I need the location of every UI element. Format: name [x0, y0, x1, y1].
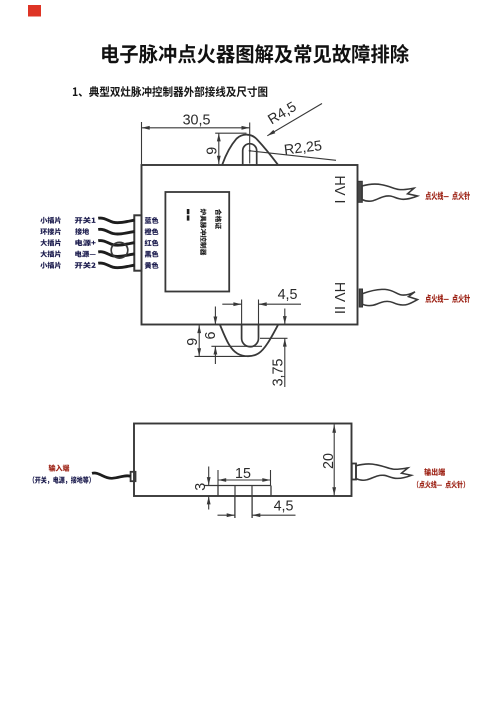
screw boss below body: [234, 496, 236, 518]
dimension 20 line and arrows: [333, 425, 335, 496]
dimension 9 line and arrows: [218, 133, 220, 164]
radius callout R4,5 leader: [267, 104, 322, 136]
label 输出端: [424, 468, 445, 476]
dimension 3 lower segment: [208, 496, 210, 509]
wire color label 黄色: [145, 262, 159, 269]
pin label 小插片: [40, 217, 61, 224]
wire loop ring: [111, 242, 128, 258]
svg-text:6: 6: [203, 331, 219, 339]
output terminal lug: [352, 464, 356, 480]
pin label 环接片: [40, 228, 61, 235]
mounting ear outer profile: [222, 135, 277, 165]
pin label 电源—: [75, 251, 95, 258]
svg-text:9: 9: [205, 147, 221, 155]
label (点火线— 点火针): [417, 481, 465, 489]
svg-text:20: 20: [321, 453, 337, 469]
ear vertical centerline: [249, 123, 251, 164]
HV II terminal lug: [359, 289, 362, 307]
dimension 9 reference line: [215, 132, 246, 134]
output wire banner: [356, 464, 412, 480]
label plate rectangle: [165, 192, 229, 292]
controller body outline: [142, 165, 358, 325]
slot extension line right: [258, 300, 260, 325]
HV I terminal lug: [358, 181, 363, 202]
mounting pad left side: [217, 486, 219, 497]
plate dashes —— (rotated): [187, 209, 190, 214]
label 输入端: [49, 464, 70, 471]
label (开关, 电源, 接地等): [33, 476, 91, 484]
screw hole sides inside pad: [234, 486, 236, 497]
mounting pad top line: [205, 485, 272, 487]
pin label 接地: [75, 228, 89, 235]
plate text 合格证 (rotated): [215, 209, 222, 229]
wire color label 橙色: [145, 228, 159, 235]
dimension 9 (notch depth): [198, 325, 200, 357]
svg-text:3,75: 3,75: [270, 359, 286, 387]
wire color label 红色: [145, 240, 159, 247]
input connector lug: [131, 472, 136, 481]
pin label 开关2: [75, 262, 96, 269]
dimension 4,5 line segments (boss): [218, 514, 235, 516]
reference line slot full depth: [211, 345, 262, 347]
title 电子脉冲点火器图解及常见故障排除: [102, 44, 409, 64]
red page marker box: [28, 5, 41, 17]
dimension 30,5 line and arrows: [142, 127, 250, 129]
svg-text:4,5: 4,5: [274, 499, 294, 515]
HV II output wire banner: [363, 289, 418, 305]
dimension 30,5 extension line: [141, 122, 143, 164]
HV I output wire banner: [362, 184, 418, 201]
bottom notch slot (through hole): [242, 325, 259, 347]
pin label 电源+: [75, 239, 95, 246]
slot extension line left: [241, 300, 243, 325]
label 点火线— 点火针 (HV I): [425, 192, 470, 201]
wire color label 黑色: [145, 251, 159, 258]
radius callout R2,25 leader: [250, 151, 336, 161]
wire 电源— (黑色): [98, 252, 134, 257]
dimension 6 (slot depth): [214, 307, 216, 325]
dimension 3 upper segment: [208, 467, 210, 486]
wire 电源+ (红色): [98, 241, 134, 246]
dimension 3,75 lower segment: [284, 338, 286, 387]
reference line slot straight depth: [260, 337, 288, 339]
svg-text:4,5: 4,5: [278, 287, 298, 303]
dimension 15 extension ticks: [217, 470, 219, 485]
pin label 小插片: [40, 262, 61, 269]
dimension 4,5 line segments with arrows: [222, 303, 241, 305]
wire color label 蓝色: [145, 217, 159, 224]
label 点火线— 点火针 (HV II): [425, 294, 470, 303]
mounting pad right side: [270, 486, 272, 497]
svg-text:3: 3: [193, 483, 209, 491]
wire 开关1 (蓝色): [98, 218, 134, 223]
wire 接地 (橙色): [98, 229, 134, 234]
pin label 开关1: [75, 217, 96, 224]
bottom view body outline: [134, 424, 352, 497]
plate text 炉具脉冲控制器 (rotated): [200, 209, 207, 256]
dimension 15 line and arrows: [218, 479, 271, 481]
dimension 3,75 upper segment: [284, 309, 286, 325]
bottom notch outer U profile: [220, 325, 278, 356]
input wire: [92, 473, 131, 478]
pin label 大插片: [40, 239, 60, 246]
svg-text:9: 9: [185, 338, 201, 346]
svg-text:30,5: 30,5: [183, 113, 211, 129]
pin label 大插片: [40, 251, 60, 258]
svg-text:HV I: HV I: [331, 175, 347, 203]
reference line notch depth: [195, 355, 247, 357]
section heading 1、典型双灶脉冲控制器外部接线及尺寸图: [73, 86, 267, 97]
input terminal strip: [134, 215, 141, 270]
svg-text:HV II: HV II: [331, 282, 347, 314]
wire 开关2 (黄色): [98, 263, 134, 268]
mounting ear slot (R2,25): [243, 144, 257, 165]
svg-text:15: 15: [235, 466, 251, 482]
